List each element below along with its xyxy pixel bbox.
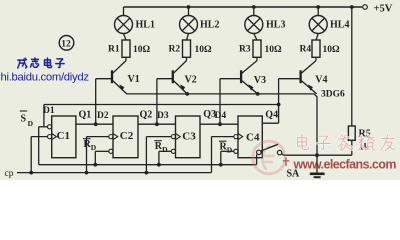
svg-text:Q4: Q4 [265,109,278,120]
wire CP riser C4 [211,137,213,173]
watermark baidu url [1,71,90,83]
svg-text:D: D [91,143,97,152]
wire rail to R5 [351,7,353,126]
wire RD riser C2 [94,151,96,164]
svg-text:C3: C3 [182,131,196,143]
transistor V3 [241,61,258,94]
svg-text:C2: C2 [120,130,134,142]
pin RD bubble C3 [171,149,175,153]
label C1 [57,130,70,142]
ground [310,155,325,177]
watermark elecfans logo antenna [283,158,289,167]
svg-text:V2: V2 [185,74,197,85]
node rail junction above HL4 [316,5,320,9]
wire feedback Q4 to D1 [44,104,279,106]
wire CP riser C2 [86,137,88,173]
svg-text:R4: R4 [300,45,312,55]
svg-text:HL3: HL3 [266,20,285,31]
label 10ohm of R4 [323,45,341,55]
label R2 [169,45,181,55]
lamp HL2 [180,16,198,34]
wire R3 to collector V3 [256,57,258,60]
label HL3 [266,20,285,31]
wire base V2 [157,78,173,80]
pin RD bubble C4 [234,149,238,153]
svg-text:10Ω: 10Ω [195,45,213,55]
switch SA lever [261,144,278,151]
wire rail to lamp HL1 [123,7,125,15]
svg-text:Q1: Q1 [79,110,92,121]
resistor R5 [348,126,355,140]
label Q3 [203,109,216,120]
label RD [219,141,233,154]
wire start line (SD/RD) [39,164,257,166]
wire RD riser C3 [158,151,160,164]
node emitter V2 junction [185,92,189,96]
label Q2 [140,110,153,121]
wire SA to ground line [282,154,352,156]
label 3DG6 transistor type [321,89,345,99]
wire common emitter rail [126,94,317,155]
wire CP pin C3 [146,136,171,138]
pin CP bubble C1 [48,135,52,139]
flip-flop U1 box [52,116,76,158]
label R3 [239,45,251,55]
label SD input [20,111,34,128]
wire CP pin C1 [31,136,47,138]
pin CP edge triangle C2 [113,134,118,140]
label +5V [374,4,393,15]
svg-text:D2: D2 [97,111,109,121]
svg-text:R1: R1 [108,45,120,55]
resistor R2 [183,40,191,57]
node Q2 junction [155,122,159,126]
svg-text:10Ω: 10Ω [133,45,151,55]
label 10ohm of R2 [195,45,213,55]
wire SD pin stub C1 [39,126,48,128]
svg-text:Q2: Q2 [140,110,153,121]
label R5 [359,129,371,140]
label D1 [43,106,55,116]
wire CP pin C2 [87,136,109,138]
node Q1 junction [94,122,98,126]
svg-text:R3: R3 [239,45,251,55]
wire start line riser to SA [256,154,258,164]
wire RD riser C4 [220,151,222,164]
wire R2 to collector V2 [186,57,188,60]
svg-text:10Ω: 10Ω [323,45,341,55]
node feedback to V4 base junction [277,103,281,107]
label V1 [128,74,140,85]
node start line junction C4 [219,163,223,167]
watermark elecfans url [293,157,397,171]
node Q3 junction [218,122,222,126]
label C3 [182,131,196,143]
svg-text:D: D [28,119,34,128]
node ground junction [315,153,319,157]
node start line junction C3 [157,163,161,167]
transistor V1 [112,61,127,94]
label Q1 [79,110,92,121]
svg-text:3DG6: 3DG6 [321,89,345,99]
wire Q4 output [262,122,278,124]
wire R5 to ground line [351,140,353,155]
transistor V4 [301,61,317,94]
label HL4 [330,20,349,31]
watermark elecfans logo circle [253,141,286,174]
wire base riser V4 to Q4 [278,79,280,124]
svg-text:V3: V3 [254,75,266,86]
pin CP edge triangle C1 [52,134,57,140]
wire base V3 [220,78,241,80]
svg-text:D: D [227,146,233,155]
wire base riser V2 to Q2 [156,79,158,125]
wire R1 to collector V1 [125,57,127,60]
label V2 [185,74,197,85]
wire cp clock line [17,172,212,174]
svg-text:www.elecfans.com: www.elecfans.com [293,157,397,171]
label R1 [108,45,120,55]
label 10ohm of R3 [265,45,283,55]
switch SA contact left [257,150,261,154]
lamp HL4 [309,16,327,34]
wire SD to start line [38,127,40,165]
node cp line junction [29,171,33,175]
wire Q3 to D4 [200,123,238,125]
label D3 [157,111,169,121]
switch SA contact right [277,150,281,154]
node rail junction above HL2 [187,5,191,9]
wire base V1 [96,78,112,80]
badge circled 12 [59,36,74,51]
svg-text:D1: D1 [43,106,55,116]
wire Q1 to D2 [76,123,113,125]
label cp [5,169,14,179]
svg-text:12: 12 [61,39,71,49]
svg-text:R2: R2 [169,45,181,55]
label HL1 [136,20,155,31]
svg-text:HL1: HL1 [136,20,155,31]
label R5 value [359,143,370,153]
terminal +5V [363,5,368,10]
label R4 [300,45,312,55]
resistor R1 [122,40,130,57]
pin CP bubble C4 [234,135,238,139]
node cp line junction [145,171,149,175]
label V4 [315,75,327,86]
svg-text:HL4: HL4 [330,20,349,31]
svg-text:V1: V1 [128,74,140,85]
wire lamp HL4 to resistor R4 [316,34,318,41]
svg-text:10Ω: 10Ω [265,45,283,55]
lamp HL3 [245,16,263,34]
wire R4 to collector V4 [315,57,317,60]
svg-text:D3: D3 [157,111,169,121]
wire CP riser C3 [145,137,147,173]
wire CP riser C1 [30,137,32,173]
resistor R3 [253,40,261,57]
wire D1 feedback drop [43,105,45,127]
wire CP pin C4 [212,136,234,138]
label HL2 [200,20,219,31]
wire rail to lamp HL3 [253,7,255,15]
wire lamp HL3 to resistor R3 [254,34,257,41]
flip-flop U4 box [238,116,262,158]
wire lamp HL1 to resistor R1 [124,34,127,41]
label D2 [97,111,109,121]
flip-flop U3 box [176,116,201,158]
label C2 [120,130,134,142]
wire RD pin C3 [159,150,171,152]
wire rail to lamp HL4 [317,7,319,15]
wire Q2 to D3 [138,123,176,125]
pin CP bubble C2 [109,135,113,139]
transistor V2 [173,61,187,94]
svg-text:hi.baidu.com/diydz: hi.baidu.com/diydz [1,71,90,83]
node rail junction above HL3 [252,5,256,9]
label SA [287,169,301,180]
label Q4 [265,109,278,120]
svg-text:S: S [21,114,27,125]
label RD [154,141,168,154]
pin CP edge triangle C4 [238,134,243,140]
wire base riser V3 to Q3 [219,79,221,125]
pin CP edge triangle C3 [176,134,181,140]
node start line junction C2 [93,163,97,167]
pin SD bubble C1 [48,125,52,129]
wire +5V supply rail [124,6,363,8]
svg-text:D4: D4 [215,111,227,121]
wire base V4 [279,78,301,80]
label RD [83,139,97,152]
node cp line junction [85,171,89,175]
label C4 [246,131,260,143]
svg-text:V4: V4 [315,75,327,86]
lamp HL1 [115,16,133,34]
svg-text:C4: C4 [246,131,260,143]
watermark chengzhi logo text [18,58,64,68]
svg-text:cp: cp [5,169,14,179]
label V3 [254,75,266,86]
wire rail to lamp HL2 [188,7,190,15]
wire base riser V1 to Q1 [95,79,97,125]
wire RD pin C4 [221,150,234,152]
label D4 [215,111,227,121]
flip-flop U2 box [113,116,138,158]
svg-text:+5V: +5V [374,4,393,15]
pin RD bubble C2 [109,149,113,153]
svg-text:C1: C1 [57,130,70,142]
svg-text:HL2: HL2 [200,20,219,31]
pin CP bubble C3 [171,135,175,139]
svg-text:D: D [162,145,168,154]
wire RD pin C2 [95,150,109,152]
node emitter V3 junction [256,92,260,96]
node rail junction above R5 [350,5,354,9]
wire lamp HL2 to resistor R2 [187,34,189,41]
resistor R4 [312,40,320,57]
watermark elecfans big text [297,135,395,151]
label 10ohm of R1 [133,45,151,55]
